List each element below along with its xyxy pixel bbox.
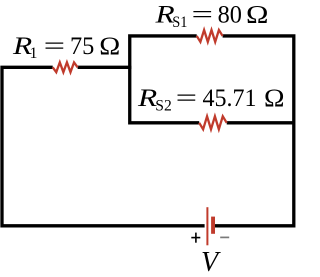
label RS2 = 45.71 ohm (137, 85, 285, 115)
svg-text:1: 1 (30, 45, 38, 62)
label R1 = 75 ohm (12, 33, 121, 62)
wire box left vertical lower and RS2 wire left segment (130, 66, 199, 123)
svg-text:80: 80 (218, 2, 242, 29)
battery plus sign (191, 233, 200, 243)
resistor RS2 (199, 116, 227, 129)
resistor RS1 (197, 30, 223, 42)
wire RS2 right segment (227, 121, 294, 124)
svg-text:V: V (201, 247, 221, 277)
battery V short plate (-) (211, 217, 215, 234)
svg-text:45.71: 45.71 (203, 85, 257, 112)
svg-text:Ω: Ω (264, 85, 285, 112)
svg-text:=: = (44, 33, 65, 60)
svg-text:=: = (176, 85, 198, 112)
wire box top right segment, right vertical, bottom-right run (215, 36, 294, 226)
resistor R1 (53, 62, 78, 72)
svg-text:R: R (137, 85, 157, 112)
svg-text:Ω: Ω (246, 2, 269, 29)
wire R1 left segment, left vertical, bottom-left run (2, 67, 205, 226)
svg-text:=: = (192, 2, 214, 29)
wire top-left loop: R1 wire right segment, box left vertical upper, box top wire left segment (78, 36, 197, 67)
label RS1 = 80 ohm (154, 2, 268, 32)
svg-text:S2: S2 (155, 98, 172, 115)
battery V long plate (+) (206, 207, 208, 245)
svg-text:Ω: Ω (99, 33, 120, 60)
battery minus sign (220, 236, 229, 238)
svg-text:S1: S1 (172, 14, 187, 31)
svg-text:75: 75 (70, 33, 94, 60)
